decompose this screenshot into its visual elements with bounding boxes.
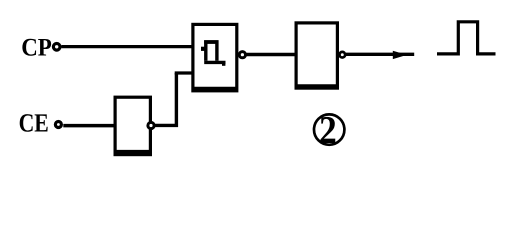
output pulse waveform (437, 22, 496, 54)
buffer U2 bottom edge thickening (297, 84, 337, 87)
buffer U2 (296, 23, 337, 88)
svg-text:CP: CP (21, 34, 52, 62)
inverter U3 bottom edge thickening (115, 150, 151, 153)
terminal CP (53, 44, 60, 51)
arrowhead (393, 51, 407, 59)
output bubble U2 (340, 52, 346, 58)
inverter U3 (115, 97, 150, 154)
wire CE input (63, 124, 116, 128)
wire U1 to U2 (247, 53, 297, 56)
wire U3 output (155, 124, 178, 127)
svg-text:2: 2 (319, 108, 337, 152)
svg-text:CE: CE (19, 109, 49, 138)
pulse symbol inside U1 (201, 42, 226, 66)
output bubble U1 (239, 52, 245, 58)
wire CP input (62, 45, 193, 48)
monostable U1 (193, 24, 237, 90)
terminal CE (55, 122, 61, 128)
figure number 2 circle (314, 114, 344, 144)
output wire (346, 53, 414, 56)
wire into U1 lower input (175, 71, 193, 74)
output bubble U3 (148, 122, 154, 128)
vertical wire (175, 73, 178, 127)
monostable U1 bottom edge thickening (193, 87, 238, 90)
